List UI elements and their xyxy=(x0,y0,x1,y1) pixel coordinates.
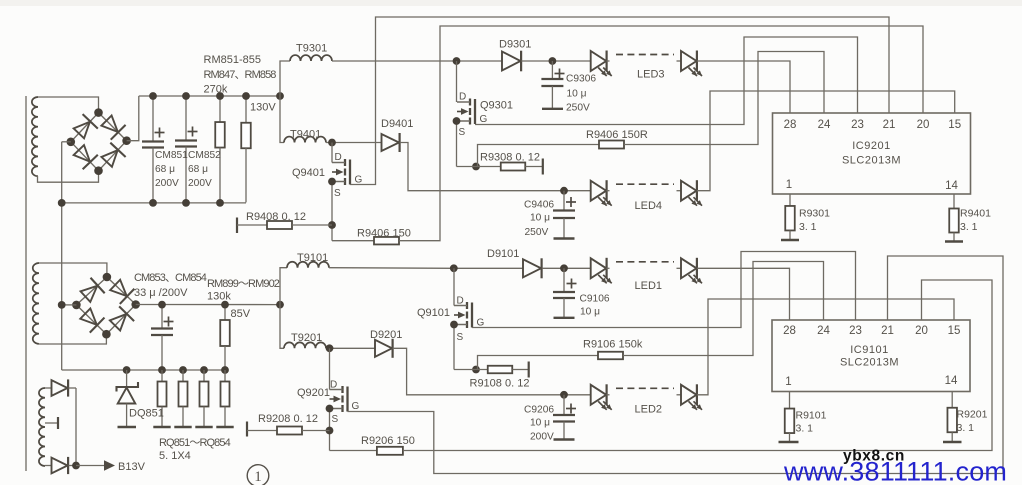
svg-text:23: 23 xyxy=(851,119,864,131)
svg-text:SLC2013M: SLC2013M xyxy=(842,155,901,167)
svg-text:68 μ: 68 μ xyxy=(155,164,175,175)
svg-text:28: 28 xyxy=(783,325,796,337)
svg-text:10 μ: 10 μ xyxy=(530,418,550,429)
svg-text:200V: 200V xyxy=(188,178,212,189)
svg-text:D: D xyxy=(330,380,337,391)
svg-text:3. 1: 3. 1 xyxy=(796,423,814,435)
svg-text:1: 1 xyxy=(786,179,792,191)
svg-text:1: 1 xyxy=(785,376,791,388)
svg-text:R9206 150: R9206 150 xyxy=(361,435,415,447)
svg-text:10 μ: 10 μ xyxy=(530,213,550,224)
svg-text:250V: 250V xyxy=(525,227,549,238)
svg-text:3. 1: 3. 1 xyxy=(960,221,978,233)
svg-text:S: S xyxy=(459,127,466,138)
svg-text:R9308 0. 12: R9308 0. 12 xyxy=(480,152,540,164)
svg-text:R9208 0. 12: R9208 0. 12 xyxy=(258,413,318,425)
svg-text:C9406: C9406 xyxy=(524,200,554,211)
svg-text:Q9101: Q9101 xyxy=(417,307,450,319)
svg-text:20: 20 xyxy=(915,325,928,337)
svg-text:CM851: CM851 xyxy=(155,150,188,161)
svg-text:20: 20 xyxy=(917,119,930,131)
svg-text:CM852: CM852 xyxy=(188,150,221,161)
svg-text:D9101: D9101 xyxy=(487,248,519,260)
svg-text:C9206: C9206 xyxy=(524,405,554,416)
svg-text:14: 14 xyxy=(945,375,958,387)
svg-text:68 μ: 68 μ xyxy=(188,164,208,175)
svg-text:3. 1: 3. 1 xyxy=(799,221,817,233)
svg-text:R9301: R9301 xyxy=(799,208,830,220)
svg-text:C9106: C9106 xyxy=(580,294,610,305)
svg-text:1: 1 xyxy=(254,469,262,485)
svg-text:T9101: T9101 xyxy=(297,252,328,264)
svg-text:www.3811111.com: www.3811111.com xyxy=(783,457,1007,485)
svg-text:RM851-855: RM851-855 xyxy=(204,54,261,66)
svg-text:D: D xyxy=(335,152,342,163)
svg-text:10 μ: 10 μ xyxy=(567,89,587,100)
svg-text:R9406 150R: R9406 150R xyxy=(586,129,648,141)
svg-text:21: 21 xyxy=(881,325,894,337)
svg-text:T9301: T9301 xyxy=(296,43,327,55)
svg-text:250V: 250V xyxy=(566,103,590,114)
svg-text:D9401: D9401 xyxy=(381,118,413,130)
svg-text:24: 24 xyxy=(818,119,831,131)
svg-text:T9401: T9401 xyxy=(290,129,321,141)
svg-text:S: S xyxy=(332,414,339,425)
svg-text:15: 15 xyxy=(948,325,961,337)
svg-text:R9408 0. 12: R9408 0. 12 xyxy=(246,211,306,223)
svg-text:Q9401: Q9401 xyxy=(292,167,325,179)
svg-text:15: 15 xyxy=(948,119,961,131)
svg-text:T9201: T9201 xyxy=(291,332,322,344)
svg-text:B13V: B13V xyxy=(118,461,146,473)
svg-text:270k: 270k xyxy=(204,84,228,96)
svg-text:Q9301: Q9301 xyxy=(480,100,513,112)
svg-text:14: 14 xyxy=(945,180,958,192)
svg-text:CM853、CM854: CM853、CM854 xyxy=(134,272,207,284)
svg-text:10 μ: 10 μ xyxy=(580,307,600,318)
svg-text:23: 23 xyxy=(849,325,862,337)
svg-text:S: S xyxy=(334,188,341,199)
svg-text:5. 1X4: 5. 1X4 xyxy=(159,450,191,462)
svg-text:D9301: D9301 xyxy=(499,39,531,51)
svg-text:G: G xyxy=(477,318,485,329)
svg-text:33 μ /200V: 33 μ /200V xyxy=(134,287,188,299)
svg-text:LED3: LED3 xyxy=(637,69,665,81)
svg-text:R9406 150: R9406 150 xyxy=(357,228,411,240)
svg-text:RM899～RM902: RM899～RM902 xyxy=(207,278,280,290)
svg-text:21: 21 xyxy=(883,119,896,131)
svg-text:R9108 0. 12: R9108 0. 12 xyxy=(470,378,530,390)
svg-text:IC9101: IC9101 xyxy=(850,344,888,356)
svg-text:24: 24 xyxy=(817,325,830,337)
svg-text:200V: 200V xyxy=(155,178,179,189)
svg-text:R9201: R9201 xyxy=(957,409,988,421)
svg-text:D: D xyxy=(457,296,464,307)
svg-text:Q9201: Q9201 xyxy=(297,387,330,399)
svg-text:28: 28 xyxy=(784,119,797,131)
svg-text:LED1: LED1 xyxy=(635,280,663,292)
svg-text:C9306: C9306 xyxy=(566,74,596,85)
svg-text:LED2: LED2 xyxy=(635,403,663,415)
svg-text:G: G xyxy=(352,401,360,412)
svg-text:IC9201: IC9201 xyxy=(852,140,890,152)
svg-text:G: G xyxy=(355,175,363,186)
svg-text:RQ851～RQ854: RQ851～RQ854 xyxy=(159,437,231,449)
svg-text:R9106 150k: R9106 150k xyxy=(583,339,643,351)
svg-text:R9401: R9401 xyxy=(960,208,991,220)
svg-text:R9101: R9101 xyxy=(796,410,827,422)
svg-text:LED4: LED4 xyxy=(635,200,663,212)
svg-text:S: S xyxy=(457,332,464,343)
svg-text:130k: 130k xyxy=(207,291,231,303)
svg-text:3. 1: 3. 1 xyxy=(957,422,975,434)
svg-text:RM847、RM858: RM847、RM858 xyxy=(204,69,277,81)
svg-text:130V: 130V xyxy=(250,102,276,114)
svg-text:85V: 85V xyxy=(231,308,251,320)
svg-text:G: G xyxy=(480,114,488,125)
svg-text:200V: 200V xyxy=(530,432,554,443)
svg-text:D9201: D9201 xyxy=(370,329,402,341)
svg-text:D: D xyxy=(459,92,466,103)
svg-text:SLC2013M: SLC2013M xyxy=(840,357,899,369)
svg-text:DQ851: DQ851 xyxy=(129,408,164,420)
